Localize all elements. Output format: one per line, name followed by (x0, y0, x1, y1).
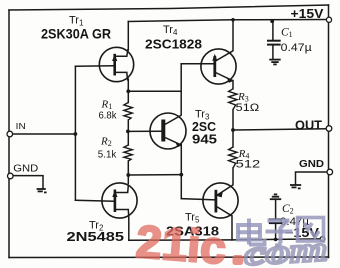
terminal OUT (326, 126, 332, 132)
wire C1 top lead (272, 21, 274, 40)
svg-text:21ic: 21ic (134, 215, 228, 268)
capacitor C2 0.47u (269, 219, 283, 223)
resistor R4 51ohm (229, 147, 237, 168)
terminal GND left (8, 173, 14, 179)
border frame top (9, 5, 329, 10)
capacitor C1 0.47u (267, 41, 281, 45)
wire node R1 top to Tr4 base column (128, 90, 181, 92)
ground at left GND (37, 189, 47, 192)
svg-text:6.8k: 6.8k (99, 109, 118, 121)
wire Tr2 gate (75, 199, 113, 202)
node C1 rail junction (270, 19, 274, 23)
wire C1 bottom lead (272, 45, 274, 59)
svg-text:OUT: OUT (295, 118, 322, 133)
wire IN lead (13, 133, 76, 135)
wire Tr1 drain to rail (127, 22, 129, 51)
svg-text:2N5485: 2N5485 (67, 229, 125, 244)
wire Tr5 collector to -15V rail (231, 216, 233, 240)
border frame bottom (9, 256, 329, 259)
ground below C1 (269, 60, 280, 65)
wire -15V rail (129, 239, 320, 240)
node OUT junction (231, 128, 235, 132)
svg-text:GND: GND (299, 159, 324, 170)
wire +15V rail (128, 20, 326, 22)
transistor Tr5 2SA318 PNP (203, 183, 238, 218)
wire Tr2 source down (128, 218, 130, 240)
wire R2 bottom to Tr2 drain (127, 161, 129, 184)
watermark 21ic red text (134, 215, 228, 268)
svg-text:51Ω: 51Ω (236, 102, 259, 114)
ground above C2 (270, 194, 281, 199)
node R2 bottom junction (126, 173, 130, 177)
ground at right GND (290, 185, 301, 188)
svg-text:512: 512 (236, 159, 261, 171)
wire R1 bottom to R2 top (127, 120, 129, 145)
node Tr4 collector rail junction (231, 18, 235, 22)
wire Tr4 base (181, 63, 213, 65)
wire GND left lead (13, 176, 43, 189)
svg-text:5.1k: 5.1k (98, 148, 117, 160)
wire R1-R2 junction to Tr3 base (128, 130, 162, 132)
svg-text:2SC1828: 2SC1828 (145, 36, 202, 51)
terminal +15V (326, 17, 331, 22)
wire R4 bottom to Tr5 emitter (232, 168, 234, 185)
resistor R3 51ohm (229, 89, 237, 110)
svg-text:945: 945 (192, 132, 217, 146)
wire Tr1 source to R1 (127, 79, 129, 103)
watermark red dot (233, 255, 244, 265)
wire to Tr5 base (181, 199, 214, 200)
transistor Tr1 2SK30A-GR JFET (99, 47, 133, 81)
terminal GND right (327, 169, 333, 175)
watermark char dian (238, 219, 265, 245)
wire R3 bottom to OUT node to R4 top (232, 110, 234, 148)
svg-text:0.47µ: 0.47µ (281, 42, 313, 54)
wire Tr4 base column (180, 64, 182, 115)
wire OUT lead (233, 129, 326, 130)
resistor R2 5.1k (124, 145, 132, 161)
transistor Tr4 2SC1828 NPN (201, 49, 236, 84)
node Tr3 emitter junction (179, 173, 183, 177)
watermark com script (243, 231, 328, 268)
node R1-R2 junction (126, 130, 130, 134)
node R1 top junction (126, 89, 130, 93)
border frame right (328, 5, 330, 258)
wire Tr1 gate (75, 65, 113, 68)
svg-text:GND: GND (13, 163, 38, 174)
wire Tr4 collector up (232, 20, 234, 51)
terminal IN (7, 131, 13, 137)
wire Tr3 emitter down (180, 145, 182, 199)
wire GND right lead (296, 172, 327, 184)
svg-text:2SK30A GR: 2SK30A GR (41, 26, 111, 42)
wire C2 top lead (275, 200, 277, 219)
watermark char zi (266, 221, 293, 246)
svg-text:IN: IN (16, 121, 26, 131)
resistor R1 6.8k (124, 103, 132, 121)
transistor Tr3 2SC945 NPN (150, 113, 186, 149)
border frame left (8, 10, 10, 258)
node C2 rail junction (274, 238, 278, 242)
terminal -15V (320, 237, 325, 242)
wire Tr4 emitter to R3 (232, 81, 234, 89)
svg-text:+15V: +15V (291, 7, 325, 21)
wire C2 bottom lead (275, 224, 277, 240)
watermark char wang (298, 218, 324, 242)
wire node to Tr3 emitter column (128, 174, 181, 176)
wire IN column to Tr1 gate and Tr2 gate (74, 66, 76, 200)
transistor Tr2 2N5485 JFET (102, 183, 137, 219)
node IN junction (74, 132, 78, 136)
